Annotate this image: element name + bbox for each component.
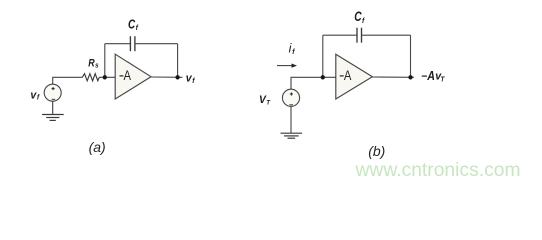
feedback wire down to output — [177, 44, 179, 78]
svg-text:T: T — [441, 76, 446, 84]
svg-text:(a): (a) — [89, 139, 106, 155]
capacitor label C_f — [128, 19, 138, 32]
resistor label R_s — [88, 57, 99, 69]
input node junction dot — [103, 75, 107, 79]
wire resistor to op-amp — [99, 76, 115, 78]
op-amp gain label -A — [340, 67, 352, 84]
minus sign inside source — [289, 104, 293, 106]
voltage source VT circle — [282, 89, 299, 106]
source label V_T — [259, 93, 271, 106]
capacitor C_f plates — [130, 36, 135, 51]
output label -Av_T — [422, 69, 445, 84]
current arrow — [277, 64, 297, 68]
svg-text:f: f — [136, 22, 139, 31]
plus sign inside source — [290, 92, 293, 95]
current label i_f — [289, 42, 296, 56]
svg-text:A: A — [344, 67, 352, 84]
output node dot — [175, 75, 179, 79]
output node dot — [408, 75, 412, 79]
svg-text:C: C — [354, 8, 362, 24]
svg-text:f: f — [192, 76, 195, 85]
ground symbol (b) — [281, 133, 303, 138]
input node junction dot — [321, 75, 325, 79]
voltage source label v_f — [30, 89, 39, 101]
svg-text:T: T — [266, 99, 271, 106]
output wire — [372, 76, 414, 78]
svg-text:f: f — [37, 92, 40, 101]
op-amp U1 triangle — [115, 54, 151, 99]
svg-text:www.cntronics.com: www.cntronics.com — [355, 160, 521, 181]
output wire — [151, 76, 183, 78]
top feedback wire left — [323, 34, 357, 36]
svg-text:(b): (b) — [368, 143, 385, 159]
top feedback wire right — [135, 43, 178, 45]
svg-text:C: C — [128, 19, 136, 32]
svg-text:A: A — [124, 67, 132, 84]
feedback wire down to output — [410, 35, 412, 77]
wire source to resistor — [53, 77, 83, 84]
feedback tap wire up — [104, 44, 106, 78]
capacitor label C_f — [354, 8, 365, 25]
svg-text:A: A — [426, 69, 435, 83]
plus sign inside source — [52, 87, 55, 90]
top feedback wire right — [362, 34, 411, 36]
ground symbol (a) — [42, 101, 64, 120]
op-amp gain label -A — [120, 67, 132, 84]
svg-text:f: f — [292, 46, 295, 55]
capacitor C_f plates — [357, 28, 362, 43]
op-amp U2 triangle — [336, 54, 373, 99]
resistor R_s zigzag — [82, 74, 99, 81]
minus sign inside source — [52, 98, 56, 100]
voltage source VS1 circle — [44, 84, 61, 101]
svg-text:s: s — [95, 62, 99, 69]
top feedback wire left — [105, 43, 131, 45]
output label v_f — [186, 73, 195, 85]
feedback tap wire up — [322, 35, 324, 77]
svg-text:f: f — [362, 16, 365, 25]
vertical wire source to ground — [290, 106, 292, 133]
wire source to op-amp — [291, 77, 336, 89]
